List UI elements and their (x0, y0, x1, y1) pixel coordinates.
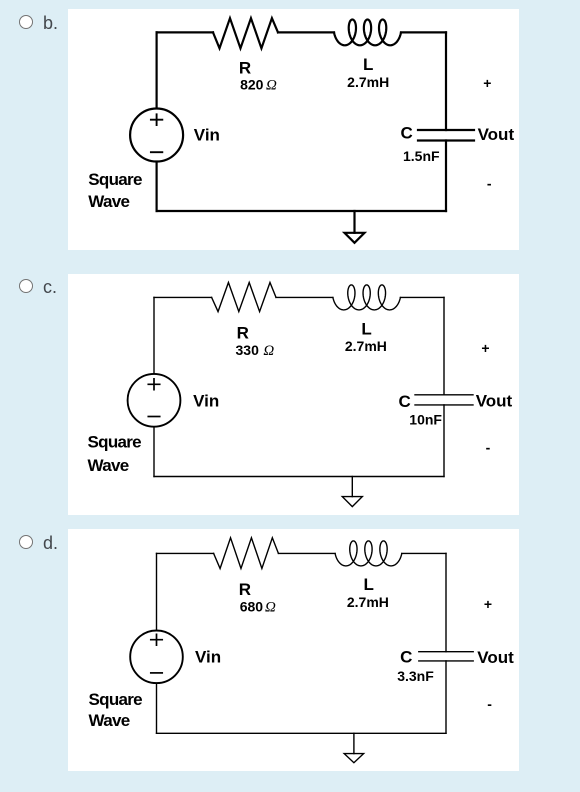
svg-text:R: R (239, 580, 251, 599)
svg-text:R: R (237, 323, 249, 342)
wire left upper (source to top) (156, 553, 158, 630)
wire right side upper (445, 32, 447, 130)
wire top-left segment (154, 296, 212, 298)
voltage source minus sign (151, 672, 162, 674)
resistor R (212, 283, 276, 312)
svg-text:2.7mH: 2.7mH (347, 594, 389, 610)
ground symbol (351, 477, 353, 497)
wire left upper (source to top) (153, 297, 155, 374)
svg-text:820Ω: 820Ω (240, 77, 277, 94)
svg-text:-: - (487, 176, 492, 192)
option b letter label (43, 14, 58, 32)
svg-text:Vout: Vout (476, 391, 513, 410)
wire left lower (source to bottom) (156, 683, 158, 733)
svg-text:L: L (364, 575, 374, 594)
wire right side upper (443, 297, 445, 394)
voltage source plus sign (151, 114, 162, 125)
wire bottom (157, 210, 446, 212)
option c letter label (43, 278, 57, 296)
wire right side lower (445, 661, 447, 733)
svg-text:R: R (239, 59, 251, 78)
svg-text:Wave: Wave (88, 192, 129, 211)
voltage source plus sign (148, 379, 159, 390)
svg-text:Square: Square (88, 170, 142, 189)
voltage source minus sign (151, 151, 162, 153)
wire right side lower (443, 405, 445, 477)
svg-text:Vin: Vin (193, 392, 219, 411)
svg-text:+: + (483, 75, 491, 91)
wire top-left segment (157, 552, 214, 554)
option b radio button (19, 15, 33, 29)
ground symbol (353, 211, 355, 233)
svg-text:Vin: Vin (194, 125, 220, 144)
svg-text:2.7mH: 2.7mH (345, 338, 387, 354)
svg-text:Vout: Vout (478, 125, 515, 144)
ground symbol (353, 733, 355, 753)
wire left lower (source to bottom) (156, 162, 158, 212)
voltage source Vin circle (128, 374, 181, 427)
capacitor C plates (415, 395, 473, 405)
option d radio button (19, 535, 33, 549)
wire right side upper (445, 553, 447, 651)
inductor L (334, 20, 401, 46)
svg-text:L: L (361, 320, 371, 339)
svg-text:Vout: Vout (477, 648, 514, 667)
wire inductor-to-corner (401, 31, 446, 33)
option c radio button (19, 279, 33, 293)
wire right side lower (445, 141, 447, 212)
option d letter label (43, 534, 58, 552)
wire bottom (154, 476, 444, 478)
svg-text:Square: Square (88, 433, 142, 452)
wire inductor-to-corner (400, 296, 444, 298)
voltage source Vin circle (130, 109, 183, 162)
wire left upper (source to top) (156, 32, 158, 108)
svg-text:-: - (487, 696, 492, 712)
svg-text:C: C (401, 124, 413, 143)
option d circuit panel (68, 529, 519, 771)
svg-text:680Ω: 680Ω (240, 598, 276, 615)
wire resistor-to-inductor (278, 552, 335, 554)
svg-text:+: + (481, 340, 489, 356)
svg-text:Wave: Wave (88, 456, 129, 475)
resistor R (213, 18, 278, 48)
svg-text:C: C (400, 648, 412, 667)
svg-text:-: - (486, 440, 491, 456)
voltage source minus sign (148, 416, 159, 418)
voltage source Vin circle (130, 631, 183, 684)
svg-text:L: L (363, 55, 373, 74)
wire resistor-to-inductor (278, 31, 334, 33)
option b circuit panel (68, 9, 519, 250)
option c circuit panel (68, 274, 519, 515)
resistor R (214, 538, 279, 569)
wire top-left segment (157, 31, 213, 33)
capacitor C plates (419, 652, 473, 661)
svg-text:+: + (484, 596, 492, 612)
wire resistor-to-inductor (276, 296, 333, 298)
wire inductor-to-corner (402, 552, 446, 554)
wire left lower (source to bottom) (153, 427, 155, 477)
capacitor C plates (418, 130, 474, 141)
svg-text:C: C (398, 392, 410, 411)
svg-text:1.5nF: 1.5nF (403, 148, 440, 164)
inductor L (335, 541, 402, 566)
inductor L (333, 285, 401, 310)
svg-text:330Ω: 330Ω (236, 342, 275, 359)
voltage source plus sign (151, 634, 162, 645)
svg-text:Vin: Vin (195, 647, 221, 666)
svg-text:3.3nF: 3.3nF (397, 668, 434, 684)
svg-text:Square: Square (89, 690, 143, 709)
svg-text:2.7mH: 2.7mH (347, 74, 389, 90)
wire bottom (157, 732, 447, 734)
svg-text:Wave: Wave (89, 711, 130, 730)
svg-text:10nF: 10nF (409, 412, 442, 428)
